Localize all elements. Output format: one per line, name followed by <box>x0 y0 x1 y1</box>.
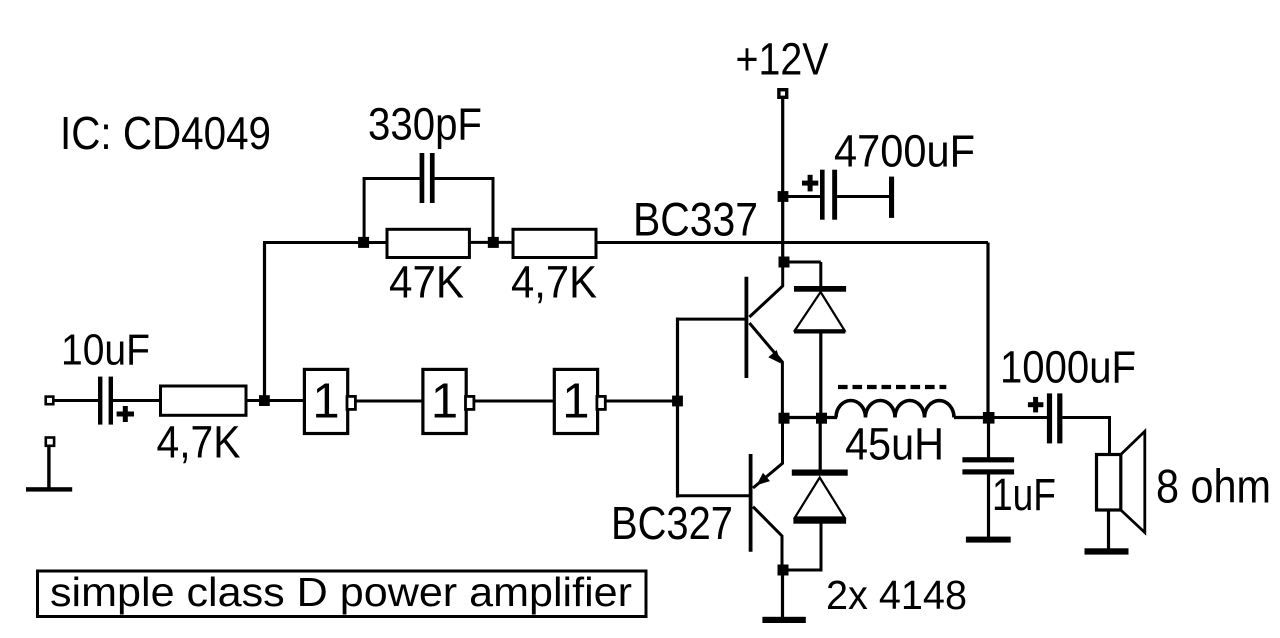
svg-text:+12V: +12V <box>736 34 829 85</box>
svg-text:1uF: 1uF <box>992 469 1056 520</box>
wire L1 to node I <box>954 416 990 419</box>
resistor R3 4,7K <box>513 229 596 257</box>
inverter U1b box <box>423 369 466 433</box>
wire node J to ground <box>781 570 784 617</box>
diode D1 cathode bar <box>794 286 846 292</box>
wire feedback long to right side <box>596 241 988 244</box>
svg-text:47K: 47K <box>389 257 464 308</box>
svg-text:8 ohm: 8 ohm <box>1156 460 1271 513</box>
inverter U1b output bubble <box>466 396 474 409</box>
wire C5 to speaker corner <box>1062 418 1109 456</box>
svg-text:2x 4148: 2x 4148 <box>826 572 967 618</box>
capacitor C3 4700uF plates <box>820 170 825 220</box>
wire C4 to ground <box>987 475 990 539</box>
C3 polarity plus <box>802 181 818 186</box>
C3 terminal end bar <box>889 177 894 218</box>
capacitor C2 330pF plates <box>420 153 425 203</box>
title box <box>38 571 647 617</box>
Q1 collector lead <box>749 262 782 317</box>
transistor Q1 BC337 base bar <box>745 277 749 378</box>
wire speaker to ground <box>1107 510 1110 551</box>
wire node J to D2 bottom <box>783 522 821 570</box>
wire C2 loop top left <box>363 177 420 180</box>
node G Q1 emitter output <box>779 413 790 424</box>
wire C2 loop top right <box>435 177 495 180</box>
speaker LS1 cone <box>1121 431 1145 532</box>
svg-text:BC337: BC337 <box>633 193 758 246</box>
+12V supply terminal <box>779 90 787 98</box>
svg-text:simple class D power amplifier: simple class D power amplifier <box>50 569 632 615</box>
transistor Q2 BC327 base bar <box>749 454 753 552</box>
svg-text:4,7K: 4,7K <box>157 417 241 468</box>
node B left end of R2/C2 <box>358 237 369 248</box>
wire to Q2 base <box>678 494 751 497</box>
L1 core dashed line <box>838 385 946 389</box>
node I filter/output <box>983 412 995 424</box>
wire node I to C5 <box>989 416 1047 419</box>
ground (Q2/D2) <box>762 617 805 623</box>
Q1 emitter arrow <box>768 350 781 364</box>
input terminal J1 <box>46 397 54 405</box>
inverter U1c box <box>554 369 597 433</box>
wire D2 cathode up to node H <box>819 418 822 470</box>
inverter U1a box <box>304 369 347 433</box>
Q2 emitter arrow <box>757 473 771 486</box>
capacitor C5 1000uF plates <box>1047 393 1052 443</box>
svg-text:1000uF: 1000uF <box>1000 342 1136 393</box>
svg-text:1: 1 <box>431 375 458 429</box>
resistor R2 47K <box>387 229 469 257</box>
C1 polarity plus <box>117 412 134 417</box>
node H D1 anode output <box>816 413 827 424</box>
svg-text:45uH: 45uH <box>845 419 944 470</box>
wire input from terminal to C1 <box>53 399 99 402</box>
C5 polarity plus <box>1028 402 1044 407</box>
node F Q1 collector / D1 cathode <box>779 257 790 268</box>
resistor R1 4,7K <box>161 386 247 415</box>
wire R2 to R3 <box>469 241 513 244</box>
diode D1 triangle <box>795 292 845 331</box>
svg-text:BC327: BC327 <box>611 497 733 549</box>
svg-text:4,7K: 4,7K <box>511 257 597 308</box>
wire +12V rail vertical <box>781 98 784 263</box>
wire output row <box>782 416 837 419</box>
node A junction input/feedback <box>259 395 270 406</box>
wire inverter2 to inverter3 <box>474 400 554 403</box>
inverter U1c output bubble <box>597 396 605 409</box>
wire C2 loop right vertical <box>492 179 495 243</box>
wire D1 anode down to output node <box>819 334 822 419</box>
ground (C4) <box>966 537 1011 543</box>
wire feedback row left segment <box>263 241 388 244</box>
inductor L1 45uH <box>836 401 954 418</box>
wire inverter3 to node D <box>605 400 679 403</box>
ground (input) <box>47 445 50 489</box>
diode D2 triangle <box>795 478 845 518</box>
svg-text:IC: CD4049: IC: CD4049 <box>60 107 271 159</box>
svg-text:10uF: 10uF <box>61 326 150 375</box>
inverter U1a output bubble <box>347 396 355 409</box>
wire node D vertical to both bases <box>676 318 679 498</box>
ground (speaker) <box>1085 548 1129 554</box>
diode D2 cathode bar <box>792 470 848 476</box>
wire node F to D1 top <box>784 261 821 264</box>
node D driver split <box>672 396 683 407</box>
wire C1 to R1 <box>113 399 161 402</box>
node C between R2 and R3 <box>488 237 499 248</box>
node J Q2 collector / D2 anode <box>778 565 789 576</box>
wire node A up to feedback row <box>263 243 266 403</box>
node E 4700uF tap <box>778 191 789 202</box>
wire feedback right vertical down to output node <box>986 243 989 418</box>
capacitor C4 1uF plates <box>962 457 1014 462</box>
wire C3 to end bar <box>837 195 889 198</box>
svg-text:330pF: 330pF <box>368 99 482 150</box>
Q2 emitter lead <box>753 418 783 488</box>
svg-text:4700uF: 4700uF <box>834 126 975 177</box>
Q2 collector lead <box>753 507 782 571</box>
svg-text:1: 1 <box>312 375 339 429</box>
speaker LS1 body <box>1097 455 1121 511</box>
diode D2 anode bar <box>793 518 846 524</box>
wire node E to C3 <box>783 195 820 198</box>
wire to Q1 base <box>678 318 747 321</box>
wire node I down to C4 <box>987 418 990 459</box>
wire R1 to inverter 1 <box>246 399 305 402</box>
svg-text:1: 1 <box>562 375 589 429</box>
Q1 emitter lead <box>749 323 782 418</box>
capacitor C1 10uF plates <box>98 377 102 425</box>
wire C2 loop left vertical <box>363 179 366 243</box>
input ground terminal J2 <box>46 438 54 446</box>
wire inverter1 to inverter2 <box>355 400 423 403</box>
